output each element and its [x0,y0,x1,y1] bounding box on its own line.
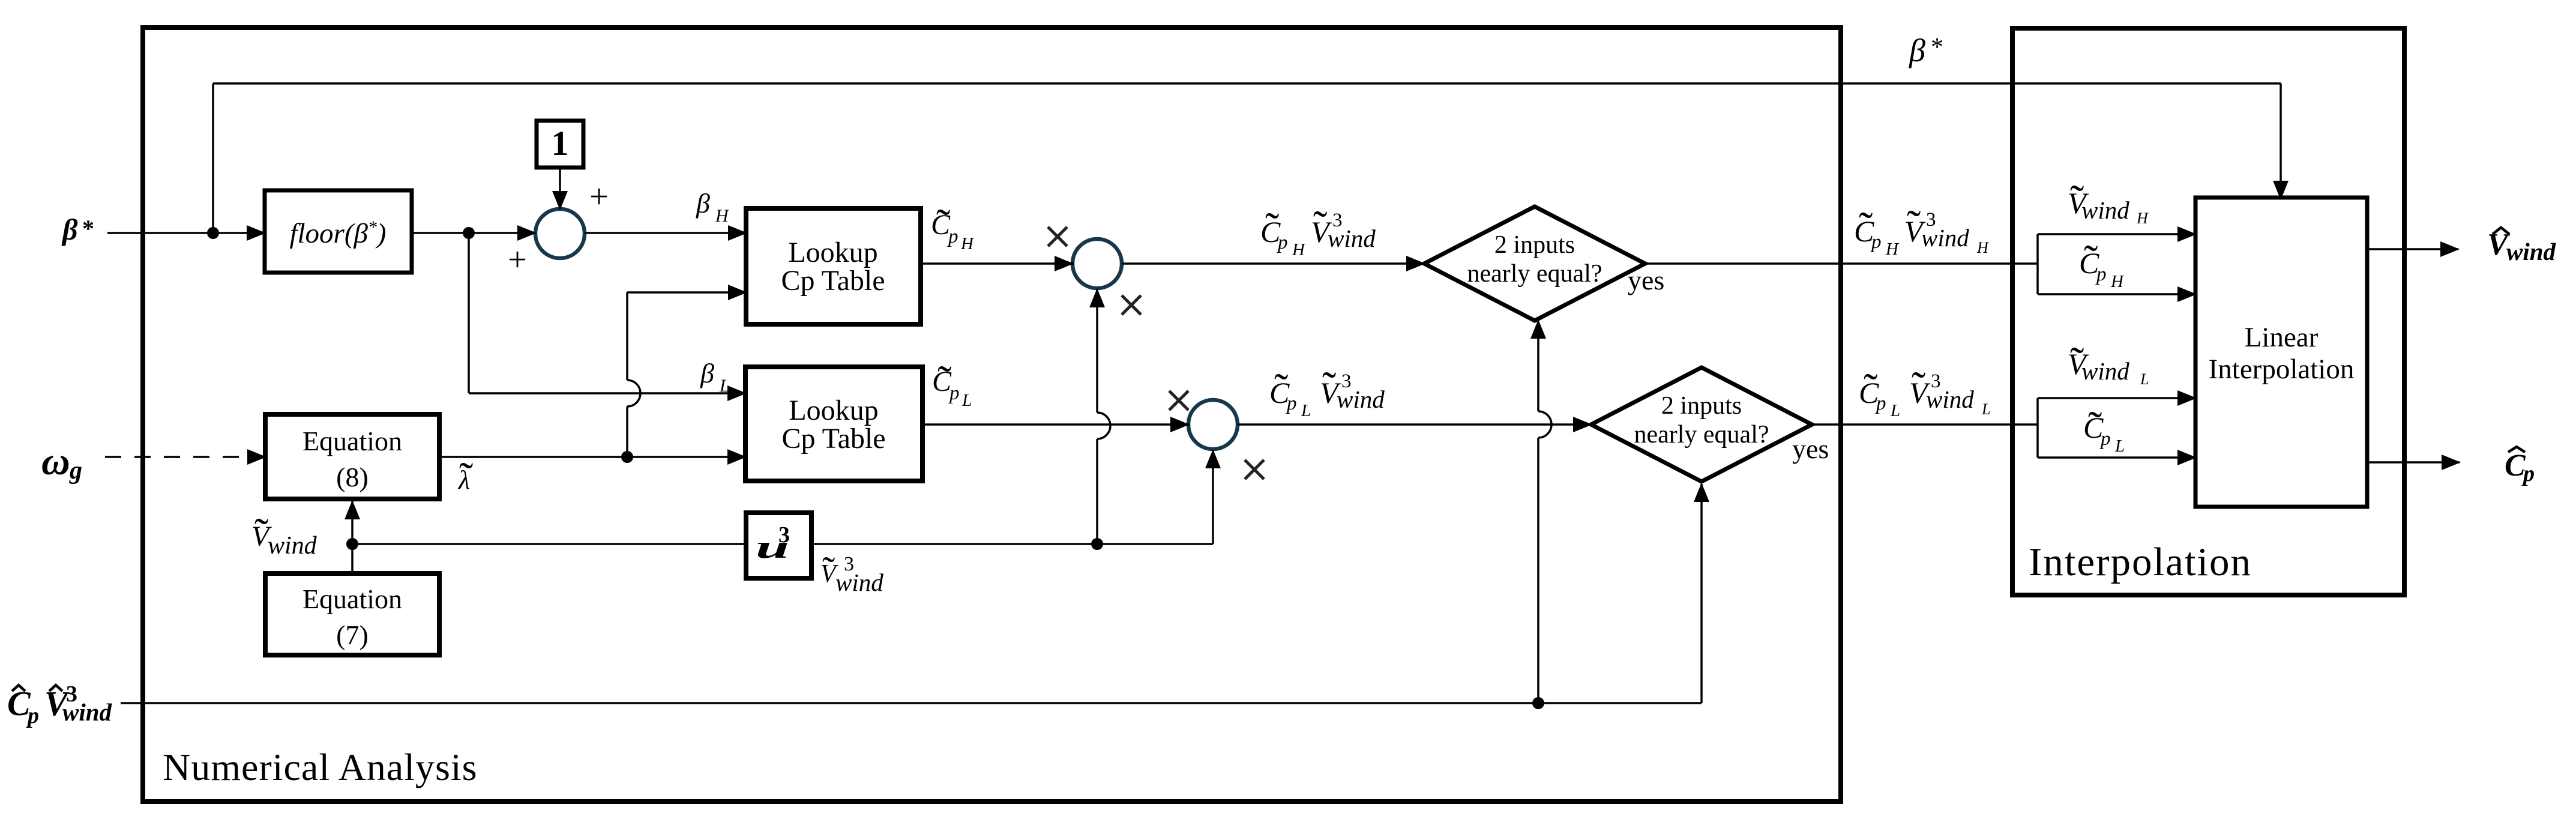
wire Vwind row [352,543,746,545]
wire up into mult L [1212,450,1214,544]
label beta* near interpolation [1909,32,1943,68]
svg-text:nearly equal?: nearly equal? [1634,421,1769,449]
svg-text:Linear: Linear [2245,322,2319,353]
svg-text:p: p [1286,393,1297,414]
label beta_L [700,358,730,396]
times sign L lower [1245,460,1264,479]
label C_hat_p output [2505,447,2535,486]
svg-text:L: L [1890,401,1900,420]
wire lambda to lookup H input2 [627,291,745,294]
arrow into lookup L input1 [727,385,747,401]
arrow into lookup L input2 [727,449,747,465]
svg-text:*: * [1931,34,1943,61]
label omega_g input [41,440,82,485]
svg-text:wind: wind [835,569,883,596]
svg-text:p: p [1875,393,1886,414]
multiplier circle L [1188,400,1238,449]
svg-text:p: p [1277,232,1288,253]
label CpH V3windH after diamond H [1854,202,1989,259]
svg-text:L: L [1301,401,1311,420]
block Equation (8) [265,414,439,499]
svg-text:Equation: Equation [302,584,402,614]
svg-text:p: p [2521,461,2535,486]
arrow into sum left [517,225,537,241]
svg-text:Cp Table: Cp Table [781,265,885,297]
svg-text:˜: ˜ [1265,205,1279,251]
svg-text:Lookup: Lookup [789,394,878,426]
decision diamond H [1424,207,1645,321]
wire eq7 to eq8 [351,501,354,573]
svg-text:H: H [2136,210,2149,227]
arrow Vwind output [2440,241,2460,257]
arrow into mult H bottom [1089,288,1105,307]
label V_hat_wind output [2487,228,2556,265]
arrow into diamond H bottom [1530,319,1546,339]
label Cp_tilde_L fork [2083,403,2125,456]
wire omega_g dashed [105,456,261,458]
svg-text:*: * [82,215,94,242]
node beta* branch [207,227,219,239]
wire branch up to mult H [1096,439,1098,544]
svg-text:Lookup: Lookup [788,237,877,268]
block constant 1 [537,121,583,168]
wire hop over CpL row [1538,411,1551,438]
svg-text:H: H [1292,240,1306,259]
outer box Numerical Analysis [143,28,1841,802]
svg-text:L: L [1981,400,1990,418]
wire lookup H to mult H [921,262,1074,265]
label Cp_tilde_L after lookup L [932,358,972,410]
wire hop over CpL line [1097,413,1110,439]
label V_tilde_wind near eq7 [251,510,317,560]
block Equation (7) [265,573,439,655]
svg-text:˜: ˜ [459,455,473,501]
wire lambda branch up [626,406,628,457]
svg-text:β: β [700,358,714,388]
node floor output branch [463,227,475,239]
block Linear Interpolation [2195,198,2367,507]
svg-text:wind: wind [1921,224,1969,252]
wire up into diamond L bottom [1700,484,1703,703]
svg-text:β: β [696,188,710,219]
svg-text:L: L [2140,370,2149,388]
svg-text:yes: yes [1628,265,1664,295]
svg-text:H: H [2110,272,2125,291]
wire hop lambda over beta_L [627,380,640,406]
wire diamond H yes out [1645,262,2038,265]
svg-text:˜: ˜ [1274,366,1288,412]
arrow into interp input4 [2177,450,2197,465]
wire diamond L yes out [1812,423,2038,426]
svg-text:L: L [719,376,730,396]
svg-text:2 inputs: 2 inputs [1661,392,1742,420]
block u cubed [746,513,811,578]
wire mult H to diamond H [1122,262,1425,265]
svg-text:wind: wind [1926,385,1974,413]
svg-text:˜: ˜ [1912,364,1925,410]
wire bottom CpV3 input [121,702,1702,704]
svg-text:H: H [1976,239,1989,256]
arrow into mult L bottom [1205,449,1221,468]
node u3 out branch [1091,538,1103,550]
times sign H lower [1122,295,1141,315]
svg-text:+: + [508,241,527,279]
wire beta_L into lookup L [469,392,745,394]
arrow into interp top [2273,181,2289,200]
times sign L upper [1169,391,1188,410]
label Cp_hat V3_wind input bottom [7,681,112,728]
node lambda branch [621,451,633,463]
label CpH V3wind before diamond H [1260,203,1376,259]
svg-text:p: p [26,703,39,728]
arrow into diamond H left [1406,256,1425,271]
arrow into eq8 bottom [345,500,360,519]
svg-text:(7): (7) [336,620,369,650]
svg-text:˜: ˜ [254,510,268,557]
svg-text:wind: wind [2081,357,2129,385]
wire branch up to diamond H bottom [1537,438,1539,703]
svg-text:yes: yes [1792,434,1829,464]
svg-text:p: p [2095,264,2107,285]
arrow into interp input1 [2177,226,2197,242]
outer box Interpolation [2012,28,2404,595]
svg-text:+: + [589,178,609,216]
fork H bottom line [2038,293,2197,295]
times sign H upper [1048,227,1067,246]
fork L top line [2038,397,2197,399]
svg-text:wind: wind [62,698,112,726]
fork H top line [2038,233,2197,235]
svg-text:Interpolation: Interpolation [2029,540,2252,584]
svg-text:Interpolation: Interpolation [2209,354,2355,385]
block floor(beta*) [265,190,412,273]
wire beta* input [107,232,265,234]
svg-text:˜: ˜ [1907,202,1921,249]
svg-text:H: H [960,234,975,253]
svg-text:˜: ˜ [2088,403,2102,450]
svg-text:p: p [2099,428,2111,450]
wire beta* up branch [212,83,214,233]
wire Vwind output [2367,248,2458,250]
arrowheads group [247,181,2461,519]
label CpL V3wind before diamond L [1269,364,1385,420]
svg-text:p: p [948,382,960,404]
svg-text:˜: ˜ [2084,237,2098,283]
arrow into mult L left [1170,417,1190,432]
wire lambda line [439,456,744,458]
svg-text:(8): (8) [336,462,369,492]
fork L bottom line [2038,456,2197,459]
arrow into floor [247,225,266,241]
arrow into diamond L left [1573,417,1592,432]
svg-text:g: g [69,457,82,485]
wires group [105,83,2460,703]
svg-text:H: H [715,206,730,226]
wire lookup L to mult L [922,423,1190,426]
arrow into interp input2 [2177,286,2197,302]
arrow into sum top [552,191,568,210]
svg-text:wind: wind [2506,238,2556,265]
label V_tilde_wind_H fork [2068,177,2149,227]
label beta_H [696,188,730,226]
svg-text:˜: ˜ [822,549,835,591]
wire u3 out [811,543,1213,545]
fork L bar [2036,398,2039,458]
multiplier circle H [1073,239,1122,288]
svg-text:L: L [2114,437,2125,456]
label V_tilde_wind_L fork [2068,339,2149,388]
label Cp_tilde_H fork [2079,237,2125,291]
node Vwind branch [346,538,358,550]
block Lookup Cp Table L [745,367,922,481]
svg-text:wind: wind [1337,385,1385,413]
arrow into interp input3 [2177,390,2197,406]
svg-text:1: 1 [552,124,569,163]
label CpL V3windL after diamond L [1859,364,1990,420]
svg-text:2 inputs: 2 inputs [1494,231,1575,259]
wire beta* down into interpolation [2280,83,2282,196]
svg-text:˜: ˜ [1864,366,1877,412]
arrow into eq8 dashed [247,449,266,465]
svg-text:˜: ˜ [1859,204,1873,250]
label Cp_tilde_H after lookup H [931,201,975,253]
block Lookup Cp Table H [746,208,921,324]
svg-text:L: L [961,391,972,410]
svg-text:nearly equal?: nearly equal? [1467,260,1602,288]
svg-text:Numerical Analysis: Numerical Analysis [163,746,478,788]
node bottom line branch [1532,697,1544,709]
svg-text:β: β [1909,32,1925,68]
arrow into diamond L bottom [1694,483,1709,502]
svg-text:˜: ˜ [1322,364,1336,410]
svg-text:p: p [947,226,958,247]
label beta* input [61,213,94,246]
wire sum to lookup H [585,232,745,234]
wire 1 to sum [559,169,561,208]
svg-text:Equation: Equation [302,426,402,456]
svg-text:wind: wind [2081,196,2129,224]
wire Cp output [2367,461,2460,464]
label lambda_tilde [457,455,473,501]
arrow into lookup H input1 [728,225,747,241]
svg-text:wind: wind [268,532,317,560]
wire floor branch down [468,233,470,393]
summing junction circle [535,209,585,258]
arrow into lookup H input2 [728,285,747,300]
arrow into mult H left [1055,256,1074,271]
svg-text:β: β [61,213,78,246]
svg-text:Cp Table: Cp Table [781,423,885,455]
svg-text:p: p [1870,231,1882,253]
label V3_tilde_wind after u3 [820,549,883,596]
svg-text:3: 3 [778,522,790,548]
wire floor to sum [412,232,534,234]
wire mult L to diamond L [1238,423,1592,426]
svg-text:wind: wind [1328,225,1376,252]
svg-text:ω: ω [41,440,70,483]
svg-text:H: H [1885,240,1900,259]
svg-text:˜: ˜ [1313,203,1327,249]
wire beta* feedback top [213,82,2281,85]
fork H bar [2036,234,2039,294]
arrow Cp output [2442,455,2461,470]
decision diamond L [1591,367,1812,482]
